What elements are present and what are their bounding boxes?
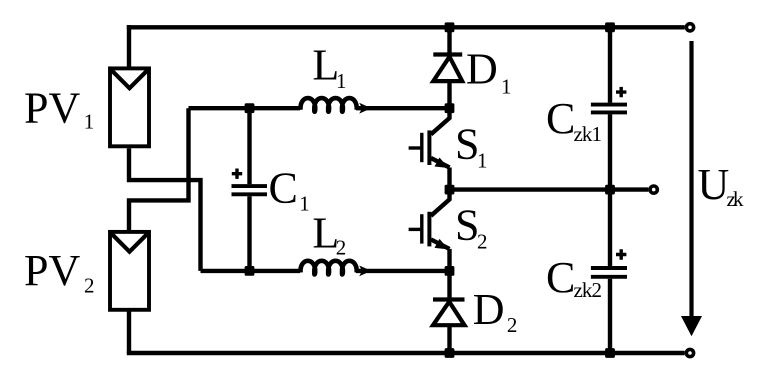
node line A / D1 / S1 (445, 103, 455, 113)
svg-text:2: 2 (507, 313, 518, 337)
svg-text:S: S (455, 201, 479, 250)
wire line A left segment (189, 106, 301, 110)
svg-text:1: 1 (501, 75, 512, 99)
wire S1 emitter lead (447, 168, 451, 190)
node mid rail / Czk (605, 185, 615, 195)
svg-text:C: C (546, 253, 575, 302)
PV module PV2 (110, 232, 149, 310)
PV module PV1 (110, 68, 149, 146)
capacitor Czk1 (591, 103, 627, 107)
terminal output plus (686, 24, 693, 31)
wire line B right segment (356, 269, 450, 273)
svg-text:zk1: zk1 (574, 122, 603, 146)
wire Czk1 bottom lead (608, 114, 612, 189)
polarity plus mark Czk1 (616, 87, 626, 97)
wire PV1 positive lead to top rail (127, 25, 131, 66)
diode D1 (433, 52, 462, 56)
wire mid rail (450, 187, 649, 191)
wire C1 bottom lead (247, 196, 251, 271)
svg-text:2: 2 (477, 229, 488, 253)
wire C1 top lead (247, 108, 251, 184)
capacitor C1 (232, 184, 268, 188)
svg-text:2: 2 (336, 236, 347, 260)
arrow on line B (359, 266, 371, 277)
terminal output mid (650, 186, 657, 193)
svg-text:D: D (473, 285, 505, 334)
svg-text:1: 1 (84, 110, 95, 134)
wire S2 emitter lead (447, 249, 451, 271)
wire line A right segment (356, 106, 450, 110)
arrow on line A (359, 103, 371, 114)
svg-text:D: D (466, 44, 498, 93)
arrow Uzk output voltage (689, 41, 693, 320)
inductor L1 (300, 98, 356, 112)
wire D2 anode lead (447, 325, 451, 353)
wire Czk2 bottom lead (608, 279, 612, 353)
svg-text:C: C (269, 164, 298, 213)
node top rail / D1 (445, 22, 455, 32)
svg-text:zk: zk (727, 187, 745, 211)
wire line B left segment (201, 269, 301, 273)
wire Czk1 top lead (608, 27, 612, 102)
svg-text:zk2: zk2 (574, 278, 603, 302)
node line A / C1 (245, 103, 255, 113)
svg-text:C: C (546, 94, 575, 143)
node bottom rail / Czk2 (605, 348, 615, 358)
svg-text:U: U (698, 160, 730, 209)
node line B / S2 / D2 (445, 266, 455, 276)
diode D2 (433, 297, 465, 301)
node top rail / Czk1 (605, 22, 615, 32)
inductor L2 (300, 261, 356, 275)
polarity plus mark C1 (232, 169, 242, 179)
wire bottom rail (127, 351, 685, 355)
terminal output minus (686, 349, 693, 356)
svg-text:1: 1 (299, 192, 310, 216)
polarity plus mark Czk2 (616, 249, 626, 259)
transistor S1 (IGBT) (431, 108, 450, 134)
wire D1 anode lead (447, 81, 451, 108)
wire top rail (127, 25, 685, 29)
svg-text:1: 1 (477, 148, 488, 172)
svg-text:2: 2 (84, 273, 95, 297)
wire D2 cathode lead (447, 271, 451, 300)
wire Czk2 top lead (608, 190, 612, 267)
svg-text:PV: PV (24, 83, 80, 132)
node bottom rail / D2 (445, 348, 455, 358)
svg-text:S: S (455, 120, 479, 169)
node mid rail / S1 / S2 (445, 185, 455, 195)
wire PV2 negative lead to bottom rail (127, 311, 131, 353)
wire PV2 positive crossover to line A (129, 108, 189, 230)
capacitor Czk2 (591, 266, 627, 270)
node line B / C1 (245, 266, 255, 276)
svg-text:1: 1 (336, 69, 347, 93)
wire PV1 negative crossover to line B (129, 148, 201, 271)
svg-text:PV: PV (24, 246, 80, 295)
wire D1 cathode lead (447, 27, 451, 54)
transistor S2 (IGBT) (431, 190, 450, 216)
terminal circles (650, 24, 694, 357)
